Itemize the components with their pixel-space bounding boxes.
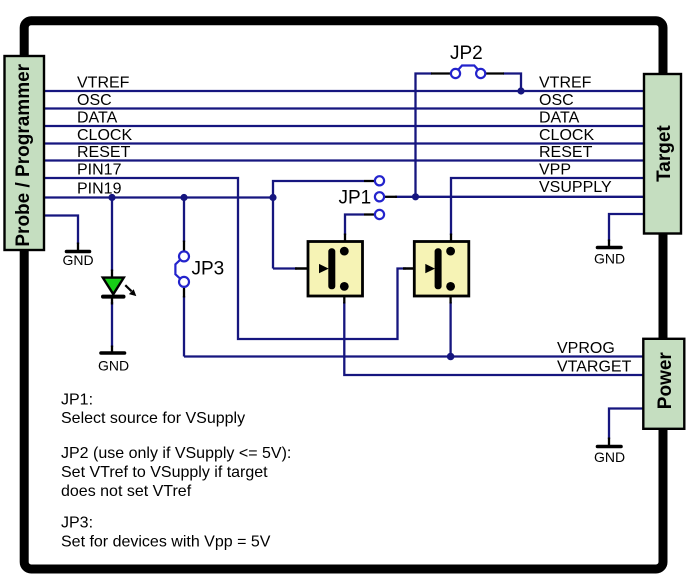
svg-text:JP2: JP2 xyxy=(450,43,483,64)
svg-text:VTREF: VTREF xyxy=(77,74,130,91)
svg-text:VPROG: VPROG xyxy=(557,340,615,357)
svg-text:JP1:: JP1: xyxy=(61,391,93,408)
svg-text:JP3:: JP3: xyxy=(61,515,93,532)
svg-text:DATA: DATA xyxy=(539,109,580,126)
svg-text:VPP: VPP xyxy=(539,161,571,178)
svg-text:CLOCK: CLOCK xyxy=(77,127,132,144)
svg-text:RESET: RESET xyxy=(77,144,131,161)
svg-text:RESET: RESET xyxy=(539,144,593,161)
svg-text:JP2 (use only if VSupply <= 5V: JP2 (use only if VSupply <= 5V): xyxy=(61,445,291,462)
svg-text:does not set VTref: does not set VTref xyxy=(61,483,192,500)
svg-text:VTARGET: VTARGET xyxy=(557,359,632,376)
svg-text:PIN19: PIN19 xyxy=(77,181,122,198)
svg-text:Probe / Programmer: Probe / Programmer xyxy=(13,63,34,246)
svg-text:DATA: DATA xyxy=(77,109,118,126)
svg-text:GND: GND xyxy=(98,358,129,374)
svg-text:JP1: JP1 xyxy=(339,188,372,209)
svg-text:VSUPPLY: VSUPPLY xyxy=(539,179,612,196)
svg-text:VTREF: VTREF xyxy=(539,74,592,91)
svg-text:Set for devices with Vpp = 5V: Set for devices with Vpp = 5V xyxy=(61,534,271,551)
svg-text:GND: GND xyxy=(594,449,625,465)
svg-text:Power: Power xyxy=(655,352,676,410)
svg-text:GND: GND xyxy=(62,252,93,268)
svg-text:PIN17: PIN17 xyxy=(77,161,122,178)
svg-text:Target: Target xyxy=(654,125,675,182)
svg-text:GND: GND xyxy=(594,250,625,266)
svg-text:Set VTref to VSupply if target: Set VTref to VSupply if target xyxy=(61,464,268,481)
svg-text:Select source for VSupply: Select source for VSupply xyxy=(61,410,245,427)
svg-text:CLOCK: CLOCK xyxy=(539,127,594,144)
svg-text:OSC: OSC xyxy=(539,92,574,109)
svg-text:JP3: JP3 xyxy=(192,259,225,280)
svg-text:OSC: OSC xyxy=(77,92,112,109)
